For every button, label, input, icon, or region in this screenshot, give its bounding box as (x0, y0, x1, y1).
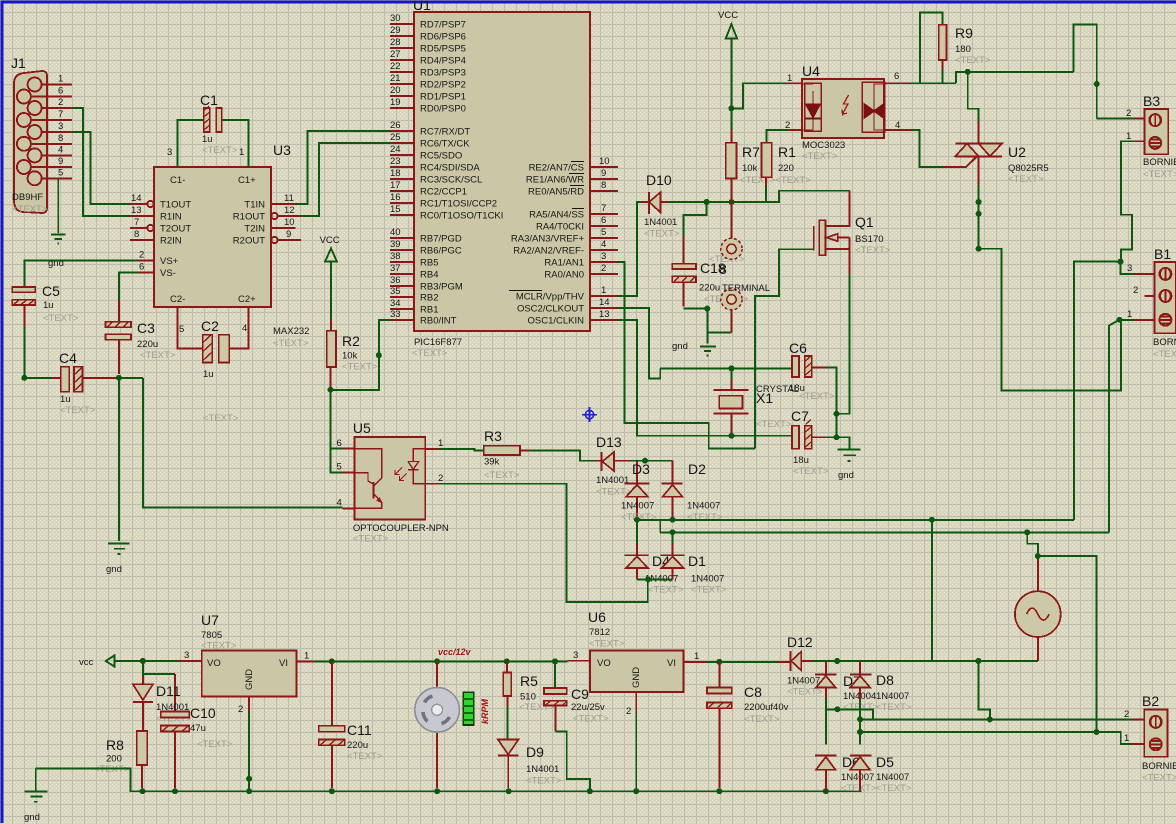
svg-text:2: 2 (626, 706, 631, 717)
svg-text:1N4007: 1N4007 (787, 676, 820, 687)
svg-text:C2-: C2- (170, 294, 185, 305)
wire junction down to U2 MT2 (968, 72, 979, 144)
svg-text:7812: 7812 (589, 627, 610, 638)
bottom ground rail (36, 768, 862, 791)
svg-text:<TEXT>: <TEXT> (573, 714, 609, 725)
wire R1 bottom to Q1 drain (766, 186, 849, 226)
svg-text:14: 14 (131, 193, 142, 204)
svg-text:<TEXT>: <TEXT> (342, 362, 378, 373)
junction on B1 net row (1024, 529, 1030, 535)
U5 left pin stubs (6,5,4) (337, 438, 355, 509)
svg-text:180: 180 (955, 44, 971, 55)
svg-text:1: 1 (1126, 131, 1131, 142)
resistor R3 39k (484, 428, 530, 481)
ground symbol near crystal (837, 437, 861, 481)
svg-text:3: 3 (167, 147, 172, 158)
svg-text:RC1/T1OSI/CCP2: RC1/T1OSI/CCP2 (420, 199, 497, 210)
svg-text:9: 9 (58, 156, 63, 167)
voltage regulator U6 7812 (588, 609, 684, 692)
svg-text:<TEXT>: <TEXT> (793, 466, 829, 477)
svg-text:RC4/SDI/SDA: RC4/SDI/SDA (420, 163, 480, 174)
svg-text:1u: 1u (60, 394, 71, 405)
wire U4pin6 net up-over to B3 pin2 (1074, 25, 1097, 119)
svg-text:5: 5 (58, 168, 63, 179)
resistor R2 10k (327, 320, 378, 387)
svg-text:<TEXT>: <TEXT> (687, 512, 723, 523)
wire U3 VS- down to C3 (119, 273, 138, 322)
svg-text:22: 22 (390, 61, 401, 72)
junction crystal bottom (729, 433, 735, 439)
capacitor C6 18u (789, 340, 835, 402)
svg-text:3: 3 (601, 251, 606, 262)
svg-text:MOC3023: MOC3023 (802, 140, 845, 151)
svg-text:OSC1/CLKIN: OSC1/CLKIN (528, 316, 585, 327)
wire U1 OSC2 pin14 to crystal top (618, 308, 660, 378)
svg-text:25: 25 (390, 132, 401, 143)
svg-text:U1: U1 (413, 0, 431, 13)
U6 pin3 VO stub (567, 650, 590, 661)
connector J1 DB9HF (11, 55, 72, 215)
svg-text:39: 39 (390, 239, 401, 250)
ground symbol bottom-left (24, 768, 47, 823)
svg-text:<TEXT>: <TEXT> (353, 534, 389, 545)
svg-text:<TEXT>: <TEXT> (841, 783, 877, 794)
svg-text:7805: 7805 (201, 630, 222, 641)
wire U3 R1OUT to U1 RC6 pin25 (301, 143, 390, 216)
U7 pin3 VO stub (179, 650, 202, 661)
svg-text:220u: 220u (137, 339, 158, 350)
svg-text:6: 6 (894, 71, 899, 82)
svg-text:<TEXT><TEXT>: <TEXT><TEXT> (740, 175, 811, 186)
diode D2 1N4007 (661, 461, 723, 523)
svg-text:D11: D11 (156, 683, 181, 699)
ground symbol below C18 (672, 341, 716, 356)
svg-text:39k: 39k (484, 457, 500, 468)
wire C4 right to junction (116, 377, 143, 379)
vcc/12v supply rail (314, 660, 567, 662)
svg-text:VS-: VS- (160, 268, 176, 279)
junction row B at D8 column (857, 716, 863, 722)
mid rail net (D3/D2 bottoms, long wire to B3 net) (637, 517, 1109, 532)
capacitor C5 1u (12, 283, 79, 324)
svg-text:T1IN: T1IN (244, 200, 265, 211)
junction dots mid rails (634, 517, 676, 536)
svg-text:C2+: C2+ (238, 294, 256, 305)
svg-text:D9: D9 (526, 744, 544, 760)
svg-text:4: 4 (601, 239, 606, 250)
svg-text:D1: D1 (688, 553, 706, 569)
svg-text:2: 2 (438, 473, 443, 484)
junction C18/gnd (704, 306, 710, 312)
junction dots on D12 rail (834, 658, 981, 664)
svg-text:RA4/T0CKI: RA4/T0CKI (536, 222, 584, 233)
svg-text:VO: VO (207, 658, 221, 669)
svg-text:vcc: vcc (79, 657, 94, 668)
svg-text:<TEXT>: <TEXT> (799, 391, 835, 402)
svg-text:RB2: RB2 (420, 293, 438, 304)
svg-text:24: 24 (390, 144, 401, 155)
svg-text:220u: 220u (699, 283, 720, 294)
svg-text:<TEXT>: <TEXT> (855, 245, 891, 256)
wire branch down to C18 (683, 202, 706, 264)
U7 pin1 VI stub (296, 651, 314, 662)
capacitor C4 1u (52, 350, 116, 416)
svg-text:MAX232: MAX232 (273, 326, 309, 337)
svg-text:<TEXT>: <TEXT> (1142, 773, 1176, 784)
dc motor (415, 661, 460, 788)
svg-text:<TEXT>: <TEXT> (1008, 174, 1044, 185)
svg-text:D3: D3 (632, 461, 650, 477)
diode D9 1N4001 (498, 740, 562, 789)
B2 pin2 stub (1124, 709, 1144, 720)
svg-text:37: 37 (390, 263, 401, 274)
junction AC+ top (1035, 553, 1041, 559)
wire J1 pin2 to U3 R1IN (72, 108, 130, 216)
svg-text:1u: 1u (202, 134, 213, 145)
svg-text:vcc/12v: vcc/12v (438, 647, 472, 657)
svg-text:C6: C6 (789, 340, 807, 356)
wire C4 row to U5 pin4 (143, 378, 343, 508)
svg-text:6: 6 (58, 86, 63, 97)
svg-text:4: 4 (58, 145, 63, 156)
svg-text:1: 1 (438, 438, 443, 449)
svg-text:PIC16F877: PIC16F877 (414, 337, 462, 348)
svg-text:3: 3 (573, 650, 578, 661)
svg-text:40: 40 (390, 227, 401, 238)
diode D6 1N4007 (815, 754, 877, 794)
terminal block B2 BORNIER2 (1142, 693, 1176, 784)
svg-text:<TEXT>: <TEXT> (648, 585, 684, 596)
svg-text:R2OUT: R2OUT (233, 236, 265, 247)
junction row C / AC+ (1094, 729, 1100, 735)
svg-text:220u: 220u (347, 740, 368, 751)
svg-text:510: 510 (520, 692, 536, 703)
diode D10 1N4001 (641, 172, 680, 240)
B2 pin1 stub (1124, 733, 1144, 744)
diode D13 1N4001 (595, 434, 632, 498)
svg-text:<TEXT>: <TEXT> (484, 470, 520, 481)
svg-text:D5: D5 (876, 754, 894, 770)
svg-text:26: 26 (390, 120, 401, 131)
optocoupler U5 body (353, 420, 449, 545)
transistor Q1 BS170 (755, 214, 891, 449)
junction dots on ground rail (140, 776, 829, 795)
crystal X1 (714, 368, 799, 433)
svg-text:6: 6 (337, 438, 342, 449)
svg-text:<TEXT>: <TEXT> (347, 751, 383, 762)
diode D12 1N4007 (787, 634, 823, 698)
svg-text:23: 23 (390, 156, 401, 167)
power symbol VCC top (718, 10, 738, 130)
capacitor C18 220u (672, 254, 748, 307)
svg-text:1: 1 (601, 285, 606, 296)
svg-text:2: 2 (1133, 285, 1138, 296)
svg-text:R3: R3 (484, 428, 502, 444)
wire J1 pin3 to U3 T1OUT (72, 132, 130, 204)
svg-text:1N4001: 1N4001 (644, 217, 677, 228)
capacitor C10 47u (161, 705, 233, 788)
microcontroller U1 PIC16F877 body (412, 0, 590, 359)
svg-text:<TEXT>: <TEXT> (273, 338, 309, 349)
svg-text:BORNIER2: BORNIER2 (1142, 761, 1176, 772)
svg-text:<TEXT>: <TEXT> (691, 585, 727, 596)
junction U6 VI / C8 (716, 659, 722, 665)
svg-text:D12: D12 (787, 634, 813, 650)
svg-text:1N4007: 1N4007 (876, 691, 909, 702)
capacitor C11 220u (319, 661, 383, 788)
wire junction to long vertical x=1074 (1074, 262, 1120, 520)
branch D7 column to row B (826, 709, 873, 719)
svg-text:15: 15 (390, 204, 401, 215)
svg-text:<TEXT>: <TEXT> (203, 413, 239, 424)
svg-text:5: 5 (179, 324, 184, 335)
junction C6/Q1 source (834, 411, 840, 417)
svg-text:C11: C11 (347, 722, 372, 738)
svg-text:C7: C7 (791, 408, 809, 424)
svg-text:220: 220 (778, 163, 794, 174)
svg-text:18u: 18u (793, 455, 809, 466)
svg-text:10k: 10k (342, 351, 358, 362)
svg-text:7: 7 (134, 217, 139, 228)
junction B1 pin1 (1117, 317, 1123, 323)
svg-text:5: 5 (601, 227, 606, 238)
svg-text:1: 1 (304, 651, 309, 662)
U5 right pin stubs (1,2) (425, 438, 443, 484)
wire U4 pin4 to U2 gate (884, 130, 977, 167)
svg-text:X1: X1 (756, 390, 773, 406)
svg-text:3: 3 (58, 121, 63, 132)
B1 pin2 stub (1133, 285, 1155, 296)
svg-text:2: 2 (601, 263, 606, 274)
wire mid-rail down to D12 rail (931, 520, 933, 661)
wire U1 RB0 pin33 to R2 bottom junction (333, 320, 390, 390)
svg-text:1N4001: 1N4001 (526, 764, 559, 775)
terminal block B3 BORNIER2 (1143, 93, 1176, 180)
svg-text:RD7/PSP7: RD7/PSP7 (420, 20, 466, 31)
svg-text:RD4/PSP4: RD4/PSP4 (420, 56, 466, 67)
svg-text:GND: GND (631, 667, 642, 688)
terminal pad J pin2 (721, 283, 770, 333)
junction on branch (834, 706, 840, 712)
junction R2 bottom (328, 387, 334, 393)
svg-text:B3: B3 (1143, 93, 1160, 109)
svg-text:1N4001: 1N4001 (596, 475, 629, 486)
wire U4 pin1 to VCC junction (731, 83, 788, 108)
wire R2 junction down to U5 pins 5,6 (331, 390, 343, 473)
svg-text:<TEXT>: <TEXT> (1153, 349, 1176, 360)
voltage regulator U7 7805 (201, 612, 296, 697)
B3 pin1 stub and wire down (1121, 131, 1144, 262)
svg-text:<TEXT>: <TEXT> (756, 419, 792, 430)
junction C7/gnd (834, 434, 840, 440)
svg-text:R2IN: R2IN (160, 236, 182, 247)
B3 pin2 stub (1097, 108, 1145, 119)
resistor R7 10k (726, 130, 811, 238)
power symbol VCC above R2 (320, 235, 340, 320)
junction C5/C4 row (21, 375, 27, 381)
capacitor C8 2200uf40v (707, 662, 789, 788)
diode D7 1N4004 (815, 661, 879, 745)
svg-text:RA1/AN1: RA1/AN1 (544, 258, 584, 269)
wire R3 to D13 (529, 450, 595, 460)
svg-text:kRPM: kRPM (480, 698, 490, 724)
svg-text:C9: C9 (571, 686, 589, 702)
svg-text:C1-: C1- (170, 175, 185, 186)
svg-text:U6: U6 (588, 609, 606, 625)
svg-text:RE2/AN7/CS: RE2/AN7/CS (529, 163, 584, 174)
svg-text:8: 8 (58, 133, 63, 144)
svg-text:RA0/AN0: RA0/AN0 (544, 270, 584, 281)
encoder bar kRPM (463, 692, 490, 725)
triac U2 Q8025R5 (955, 144, 1048, 186)
svg-text:34: 34 (390, 298, 401, 309)
svg-text:RB5: RB5 (420, 258, 438, 269)
svg-text:<TEXT>: <TEXT> (201, 641, 237, 652)
svg-text:2: 2 (238, 704, 243, 715)
svg-text:U2: U2 (1008, 144, 1026, 160)
U3 left pins T1OUT,R1IN,T2OUT,R2IN (14,13,7,8) (130, 193, 191, 247)
ground symbol mid-left (106, 544, 130, 575)
svg-text:U7: U7 (201, 612, 219, 628)
svg-text:33: 33 (390, 309, 401, 320)
junction dots on rail (329, 658, 558, 664)
svg-text:RD6/PSP6: RD6/PSP6 (420, 32, 466, 43)
svg-text:11: 11 (284, 193, 294, 204)
wire U1 MCLR pin1 to D10 cathode (618, 202, 641, 296)
svg-text:RA2/AN2/VREF-: RA2/AN2/VREF- (513, 246, 584, 257)
wire C18 bottom to ground (683, 309, 731, 344)
svg-text:10k: 10k (742, 163, 758, 174)
svg-text:R1IN: R1IN (160, 212, 182, 223)
wire gnd net to U3 VS+ via C5 (24, 261, 138, 287)
svg-text:<TEXT>: <TEXT> (644, 229, 680, 240)
svg-text:R5: R5 (520, 673, 538, 689)
U1 right pin stubs RE2..RE0 (10,9,8) (526, 156, 618, 198)
wire J1 pin5 down to ground (57, 178, 59, 233)
svg-text:<TEXT>: <TEXT> (1143, 169, 1176, 180)
svg-text:D8: D8 (876, 672, 894, 688)
U1 left pin stubs RD7..RD0 (30,29,28,27,22,21,20,19) (390, 13, 466, 115)
wire U3 T1IN to U1 RC7 pin26 (295, 131, 390, 204)
svg-text:<TEXT>: <TEXT> (802, 151, 838, 162)
svg-text:47u: 47u (190, 723, 206, 734)
svg-text:<TE: <TE (704, 294, 722, 305)
svg-text:C1: C1 (200, 92, 218, 108)
svg-text:OPTOCOUPLER-NPN: OPTOCOUPLER-NPN (353, 523, 449, 534)
svg-text:<TEXT>: <TEXT> (876, 702, 912, 713)
junction mid-rail (929, 517, 935, 523)
svg-text:28: 28 (390, 37, 401, 48)
svg-text:GND: GND (244, 669, 255, 690)
svg-text:<TEXT>: <TEXT> (140, 350, 176, 361)
U7 pin2 GND down (238, 697, 249, 792)
svg-text:VI: VI (667, 658, 676, 669)
svg-text:gnd: gnd (24, 812, 40, 823)
svg-text:2200uf40v: 2200uf40v (744, 702, 789, 713)
svg-text:DB9HF: DB9HF (12, 192, 43, 203)
svg-text:BORNIER3: BORNIER3 (1153, 337, 1176, 348)
svg-text:1: 1 (58, 74, 63, 85)
svg-text:OSC2/CLKOUT: OSC2/CLKOUT (517, 304, 584, 315)
terminal block B1 BORNIER3 (1153, 246, 1176, 360)
resistor R9 180 (920, 13, 991, 84)
junction crystal top (729, 365, 735, 371)
B1 pin3 stub (1127, 263, 1155, 274)
row C net to B2 pin1 (860, 732, 1132, 744)
svg-text:RB6/PGC: RB6/PGC (420, 246, 462, 257)
svg-text:29: 29 (390, 25, 401, 36)
svg-text:T1OUT: T1OUT (160, 200, 191, 211)
svg-text:8: 8 (601, 180, 606, 191)
wire B1 pin1 diagonal down to row C net (1109, 320, 1120, 533)
junction VCC / U4 pin1 (728, 105, 734, 111)
svg-text:38: 38 (390, 251, 401, 262)
bottom rail of small bridge (637, 578, 673, 580)
junction D3 top (642, 458, 648, 464)
svg-text:<TEXT>: <TEXT> (589, 639, 625, 650)
junction C4/C3/gnd (116, 375, 122, 381)
diode D4 1N4007 (624, 520, 683, 596)
svg-text:RA5/AN4/SS: RA5/AN4/SS (529, 210, 584, 221)
svg-text:1: 1 (239, 147, 244, 158)
svg-text:R1OUT: R1OUT (233, 212, 265, 223)
svg-text:T2OUT: T2OUT (160, 224, 191, 235)
svg-text:RB1: RB1 (420, 305, 438, 316)
ground symbol below J1 (51, 235, 66, 244)
svg-text:RB7/PGD: RB7/PGD (420, 234, 462, 245)
resistor R1 220 (762, 130, 797, 186)
U1 left pin stubs RC7..RC0 (26,25,24,23,18,17,16,15) (390, 120, 503, 222)
svg-text:U3: U3 (273, 142, 291, 158)
svg-text:RC3/SCK/SCL: RC3/SCK/SCL (420, 175, 482, 186)
svg-text:D10: D10 (646, 172, 672, 188)
svg-text:RE1/AN6/WR: RE1/AN6/WR (526, 175, 584, 186)
svg-text:6: 6 (139, 262, 144, 273)
svg-text:9: 9 (601, 168, 606, 179)
svg-text:RE0/AN5/RD: RE0/AN5/RD (528, 187, 584, 198)
wire U6 VI to D12 (707, 661, 791, 663)
svg-text:<TEXT>: <TEXT> (412, 348, 448, 359)
svg-text:VO: VO (597, 658, 611, 669)
svg-text:<TEXT>: <TEXT> (526, 776, 562, 787)
svg-text:2: 2 (58, 97, 63, 108)
junction U7 VO / D11 (140, 658, 146, 664)
svg-text:9: 9 (286, 229, 291, 240)
wire junction down to D11 and C10 (143, 661, 175, 711)
svg-text:<TEXT>: <TEXT> (12, 204, 48, 215)
svg-text:<TEXT>: <TEXT> (94, 764, 130, 775)
row B net to B2 pin2 (860, 718, 1132, 720)
svg-text:RD0/PSP0: RD0/PSP0 (420, 104, 466, 115)
svg-text:T2IN: T2IN (244, 224, 265, 235)
svg-text:J1: J1 (11, 55, 26, 71)
wire U5 pin2 to bridge bottom (439, 484, 648, 602)
svg-text:10: 10 (599, 156, 610, 167)
svg-text:gnd: gnd (838, 470, 854, 481)
svg-text:20: 20 (390, 85, 401, 96)
diode D1 1N4007 (661, 532, 727, 595)
wire AC+ to row C vertical (1038, 556, 1097, 732)
svg-text:R1: R1 (778, 144, 796, 160)
svg-text:3: 3 (184, 650, 189, 661)
svg-text:R7: R7 (742, 144, 760, 160)
capacitor C1 1u (167, 92, 248, 167)
svg-text:gnd: gnd (672, 341, 688, 352)
svg-text:2: 2 (1124, 709, 1129, 720)
svg-text:6: 6 (601, 215, 606, 226)
svg-text:RD2/PSP2: RD2/PSP2 (420, 80, 466, 91)
wire U2 MT1 to B1 pin1 net (979, 249, 1121, 391)
